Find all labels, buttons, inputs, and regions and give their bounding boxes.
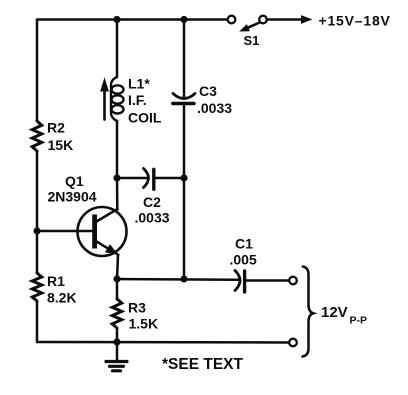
wire C3 branch bottom — [183, 104, 186, 179]
resistor R1 — [32, 273, 42, 301]
svg-text:1.5K: 1.5K — [129, 316, 159, 332]
wire R3 top lead — [116, 279, 119, 299]
wire emitter lead — [117, 255, 118, 279]
switch S1 — [228, 16, 267, 31]
wire coil branch top — [116, 20, 119, 78]
svg-text:8.2K: 8.2K — [47, 290, 77, 306]
wire left rail lower — [36, 301, 39, 342]
svg-text:2N3904: 2N3904 — [48, 189, 97, 205]
node output row junction — [180, 275, 187, 282]
node top junction C3 branch — [180, 16, 187, 23]
svg-text:I.F.: I.F. — [128, 92, 147, 108]
resistor R3 — [112, 299, 122, 328]
node emitter junction — [113, 275, 120, 282]
svg-text:C2: C2 — [143, 194, 161, 210]
node top junction coil branch — [113, 16, 120, 23]
svg-text:C1: C1 — [235, 236, 253, 252]
label C2 .0033 — [135, 194, 170, 226]
wire C3 branch to output row — [183, 178, 186, 279]
svg-text:15K: 15K — [48, 137, 74, 153]
power arrow to supply — [267, 16, 311, 23]
svg-text:*SEE TEXT: *SEE TEXT — [162, 356, 243, 373]
wire output row right — [247, 279, 290, 282]
svg-text:C3: C3 — [199, 83, 217, 99]
label R1 8.2K — [47, 273, 77, 306]
label R3 1.5K — [128, 300, 158, 332]
wire C2 left lead — [117, 177, 148, 180]
svg-text:P-P: P-P — [350, 315, 368, 327]
wire left rail upper — [36, 20, 39, 122]
label *SEE TEXT — [162, 356, 243, 373]
wire bottom rail — [37, 341, 289, 344]
node C2 right junction — [180, 174, 187, 181]
capacitor C3 — [173, 94, 195, 104]
wire collector lead — [116, 178, 119, 210]
label +15V-18V — [319, 13, 391, 29]
terminal output bottom — [289, 339, 297, 347]
label C1 .005 — [230, 236, 257, 268]
capacitor C1 — [235, 271, 245, 293]
node bottom rail junction — [113, 338, 120, 345]
wire coil branch bottom — [116, 121, 119, 178]
svg-text:S1: S1 — [244, 33, 260, 48]
svg-text:.0033: .0033 — [197, 100, 232, 116]
svg-text:12V: 12V — [321, 304, 348, 321]
svg-text:.005: .005 — [230, 252, 257, 268]
transistor Q1 — [78, 207, 127, 256]
label C3 .0033 — [197, 83, 232, 116]
label R2 15K — [47, 120, 73, 154]
svg-text:R2: R2 — [47, 120, 65, 136]
node C2 left junction — [113, 174, 120, 181]
label Q1 2N3904 — [48, 173, 97, 205]
svg-text:COIL: COIL — [128, 110, 162, 126]
svg-text:+15V–18V: +15V–18V — [319, 13, 391, 29]
inductor L1 — [111, 77, 124, 121]
wire top rail — [37, 18, 228, 21]
wire C3 branch top — [183, 20, 186, 99]
label S1 — [244, 33, 260, 48]
svg-text:L1*: L1* — [128, 76, 150, 92]
node base junction — [33, 227, 40, 234]
terminal output top — [289, 277, 297, 285]
svg-text:R3: R3 — [128, 300, 146, 316]
label L1* I.F. COIL — [128, 76, 162, 126]
label 12V P-P — [321, 304, 367, 327]
variable arrow of L1 — [101, 79, 108, 120]
wire output row left — [117, 278, 239, 281]
svg-text:R1: R1 — [47, 273, 65, 289]
brace output — [303, 267, 314, 357]
svg-text:Q1: Q1 — [65, 173, 84, 189]
resistor R2 — [32, 121, 42, 151]
wire R3 bottom lead — [116, 328, 119, 342]
wire base lead — [37, 230, 92, 233]
capacitor C2 — [144, 169, 154, 190]
wire left rail middle — [36, 151, 39, 273]
svg-text:.0033: .0033 — [135, 210, 170, 226]
wire C2 right lead — [156, 177, 185, 180]
ground — [106, 342, 127, 371]
